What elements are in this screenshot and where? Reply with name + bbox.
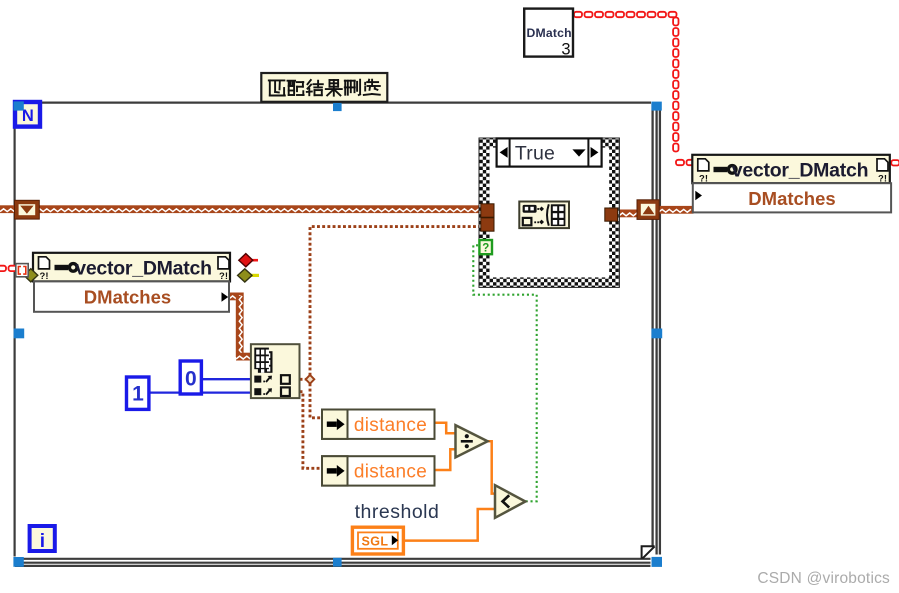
svg-text:?!: ?! (219, 271, 228, 282)
wire: case inside dotted cluster segment (494, 223, 520, 226)
svg-text:threshold: threshold (355, 501, 440, 523)
case selector terminal ? (479, 240, 492, 254)
op divide (456, 425, 488, 457)
wire: DMatches output down to Index Array (zigzag) (229, 293, 252, 361)
svg-text:vector_DMatch: vector_DMatch (75, 258, 212, 280)
wire: distance2 to divide (orange) (435, 449, 456, 470)
svg-text:3: 3 (561, 41, 570, 59)
node U1 DMatches property row (34, 281, 229, 311)
wire: Index Array output1 stub (dotted cluster) (300, 378, 306, 381)
shift register right (up arrow) (637, 200, 659, 220)
loop count terminal N (15, 102, 40, 127)
for-loop resize notch corner (642, 546, 655, 559)
case structure border (checkered) (479, 138, 619, 287)
wire: junction down to distance node 1 (dotted cluster) (310, 383, 323, 417)
svg-text:?: ? (482, 242, 489, 254)
shift register left (down arrow) (15, 200, 40, 219)
svg-text:distance: distance (354, 415, 427, 436)
wire: constant 1 to Index Array index1 (blue) (149, 391, 252, 393)
node distance 2 (322, 456, 435, 485)
wire: DMatch constant chain to vector_DMatch (red object refnum) (574, 12, 695, 165)
wire: right shift register to vector_DMatch zigzag (659, 206, 694, 214)
node distance 1 (322, 410, 435, 439)
DMatch 3 constant (524, 9, 573, 59)
svg-text:vector_DMatch: vector_DMatch (732, 160, 869, 182)
wire: Index Array output2 to distance node 2 (dotted cluster) (300, 392, 323, 469)
wire: less-than result to case selector (green dotted) (473, 245, 536, 501)
svg-text:1: 1 (132, 383, 144, 406)
for-loop frame right border (triple line) (653, 103, 660, 555)
op less-than (495, 485, 525, 518)
svg-text:?!: ?! (40, 271, 49, 282)
for-loop frame left border (14, 103, 16, 557)
label box 匹配结果删选 (261, 73, 387, 102)
node U1 red refnum diamond out (239, 254, 258, 267)
wire: red refnum stub entering loop at left (0, 266, 17, 271)
svg-text:DMatch: DMatch (527, 26, 572, 40)
wire: threshold SGL to less-than (orange) (403, 509, 495, 541)
for-loop frame bottom border (triple line) (15, 559, 651, 566)
constant 1 (127, 377, 149, 409)
wire: red refnum stub exiting right vector_DMatch (891, 160, 899, 165)
svg-text:DMatches: DMatches (748, 188, 835, 209)
node Replace Array Subset (519, 202, 569, 229)
node Index Array (251, 344, 300, 398)
wire: case output to right shift register zigzag (569, 210, 639, 218)
svg-text:CSDN @virobotics: CSDN @virobotics (757, 570, 890, 587)
wire: DMatch array through left shift register into case (zigzag) (0, 205, 482, 213)
wire: divide output to less-than (orange) (487, 441, 495, 493)
case tunnel in 1 (array) (481, 204, 494, 217)
node U2 DMatches property row (693, 183, 891, 212)
svg-text:distance: distance (354, 462, 427, 483)
for-loop frame top border (15, 101, 651, 103)
wire junction diamond (306, 375, 315, 384)
loop iteration terminal i (30, 526, 55, 552)
node U1 vector_DMatch (left) header (33, 253, 230, 282)
node U1 olive diamond in (left) (20, 269, 38, 282)
case tunnel in 2 (cluster) (481, 218, 494, 231)
selection handles (blue squares) (13, 101, 662, 567)
constant 0 (180, 361, 201, 394)
wire: distance1 to divide (orange) (434, 423, 456, 433)
svg-text:True: True (515, 142, 555, 164)
svg-text:SGL: SGL (362, 535, 389, 549)
svg-text:i: i (40, 531, 45, 552)
svg-text:0: 0 (185, 368, 197, 391)
node U2 vector_DMatch (right) header (692, 155, 890, 185)
wire: constant 0 to Index Array index0 (blue) (201, 378, 252, 380)
case tunnel out (array) (605, 208, 618, 221)
wire: Index Array output up into case structure (dotted cluster) (310, 227, 482, 376)
case selector label True (497, 138, 602, 166)
tunnel array refnum [] on left border (16, 264, 28, 277)
node U1 olive diamond out (238, 269, 259, 282)
control threshold SGL terminal (352, 527, 403, 554)
wire: case inside input zigzag (494, 205, 520, 213)
svg-text:DMatches: DMatches (84, 286, 171, 307)
